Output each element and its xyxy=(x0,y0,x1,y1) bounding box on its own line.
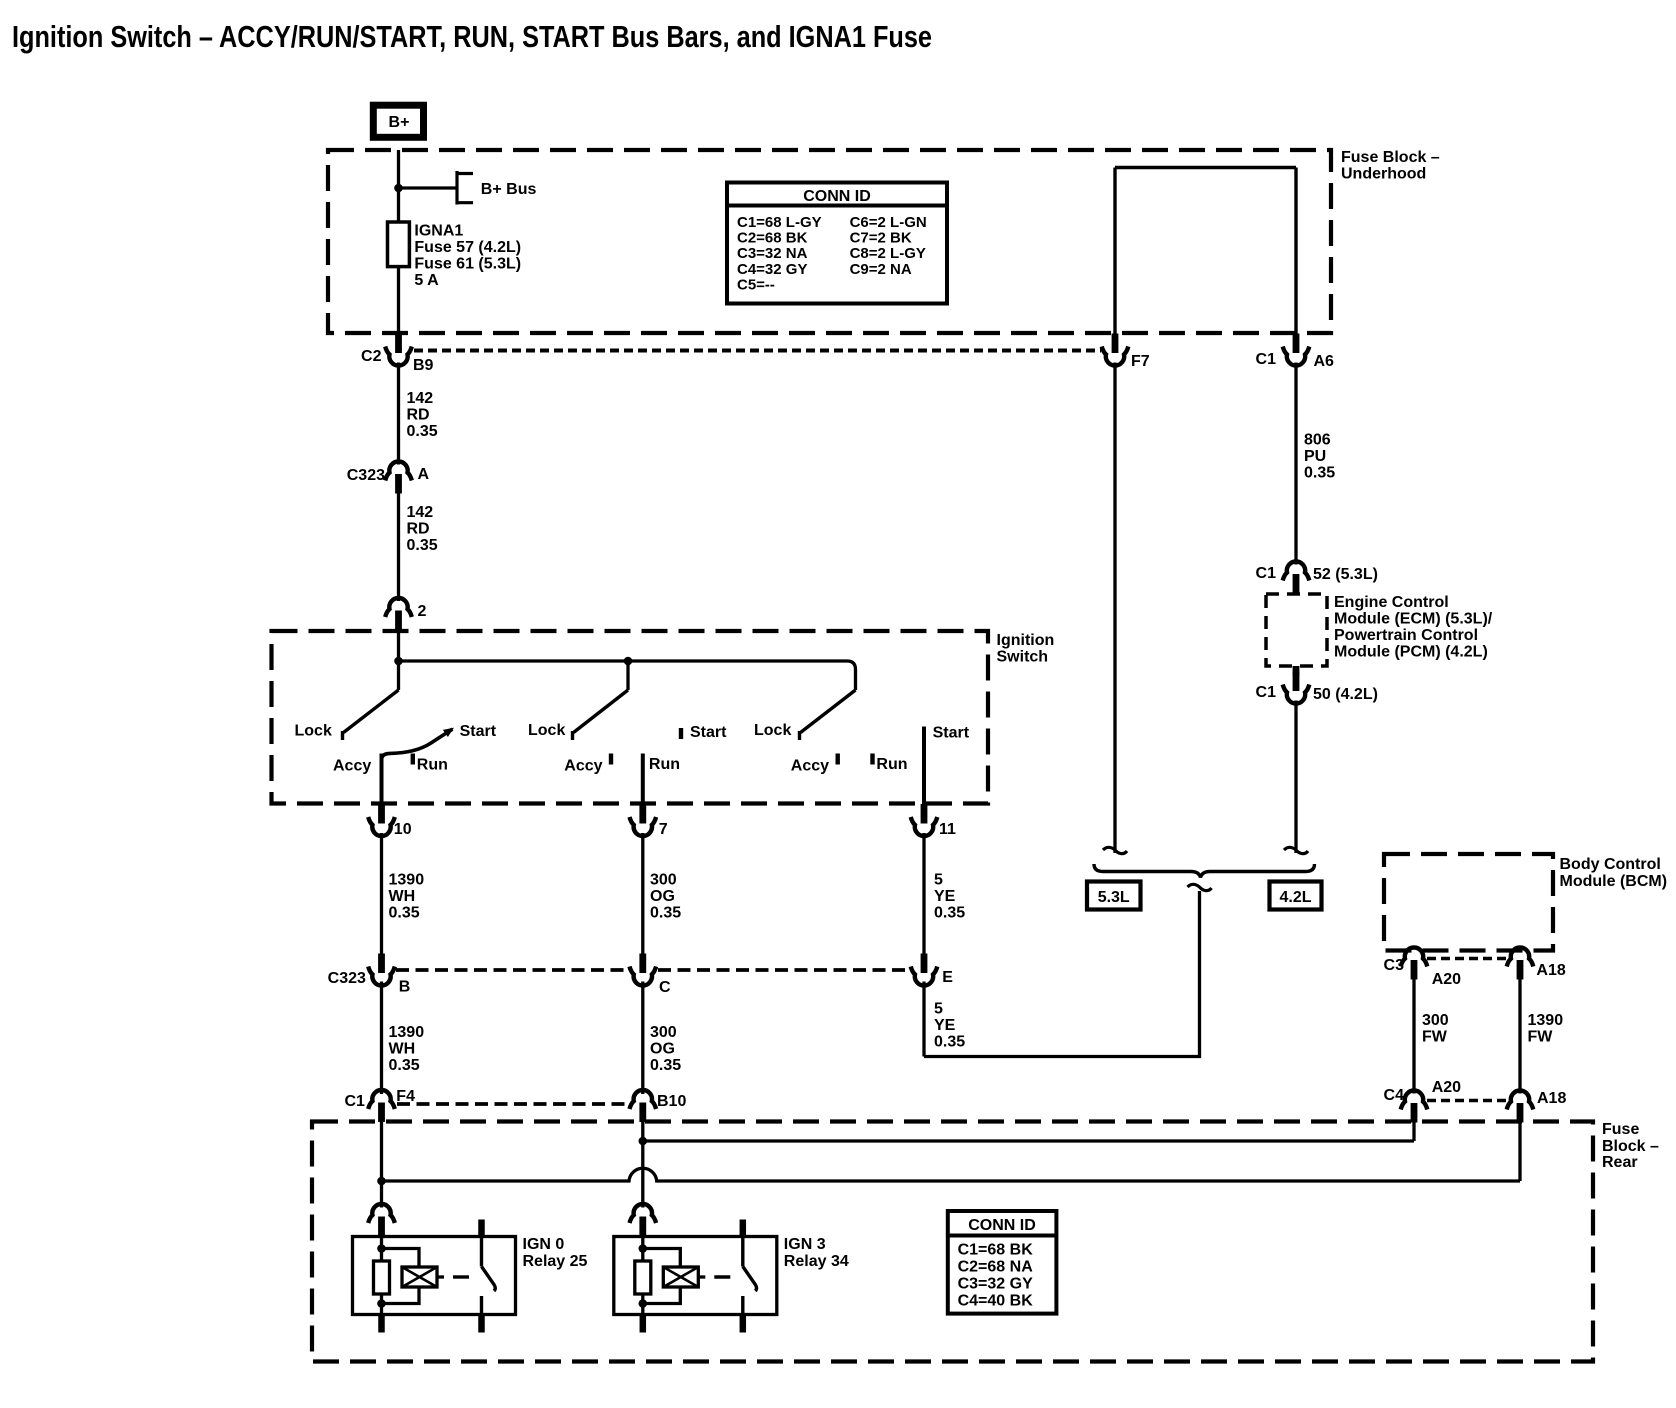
svg-text:CONN ID: CONN ID xyxy=(803,188,871,205)
svg-text:CONN ID: CONN ID xyxy=(968,1217,1036,1234)
svg-text:C1: C1 xyxy=(1256,351,1277,368)
svg-text:Fuse 61 (5.3L): Fuse 61 (5.3L) xyxy=(414,256,521,273)
svg-text:Switch: Switch xyxy=(997,649,1049,666)
svg-text:Lock: Lock xyxy=(754,722,791,739)
svg-text:FW: FW xyxy=(1422,1029,1448,1046)
svg-text:0.35: 0.35 xyxy=(407,537,438,554)
svg-text:Accy: Accy xyxy=(791,758,829,775)
svg-text:Underhood: Underhood xyxy=(1341,166,1426,183)
svg-text:7: 7 xyxy=(659,821,668,838)
svg-text:RD: RD xyxy=(407,521,430,538)
svg-text:Ignition Switch – ACCY/RUN/STA: Ignition Switch – ACCY/RUN/START, RUN, S… xyxy=(12,19,932,54)
svg-text:Accy: Accy xyxy=(564,758,602,775)
svg-text:Lock: Lock xyxy=(295,723,332,740)
svg-text:1390: 1390 xyxy=(389,872,425,889)
svg-text:0.35: 0.35 xyxy=(934,905,965,922)
svg-text:Relay 34: Relay 34 xyxy=(784,1253,849,1270)
svg-text:5: 5 xyxy=(934,872,943,889)
svg-text:10: 10 xyxy=(394,821,412,838)
svg-text:142: 142 xyxy=(407,390,434,407)
svg-text:Start: Start xyxy=(460,723,497,740)
svg-text:2: 2 xyxy=(418,603,427,620)
svg-text:C4=32 GY: C4=32 GY xyxy=(737,261,807,278)
svg-text:C9=2 NA: C9=2 NA xyxy=(850,261,912,278)
svg-text:0.35: 0.35 xyxy=(389,905,420,922)
svg-text:C4: C4 xyxy=(1384,1087,1405,1104)
svg-text:Body Control: Body Control xyxy=(1560,856,1661,873)
svg-text:C2=68 NA: C2=68 NA xyxy=(958,1259,1034,1276)
svg-text:0.35: 0.35 xyxy=(934,1034,965,1051)
svg-text:C8=2 L-GY: C8=2 L-GY xyxy=(850,245,926,262)
svg-text:C7=2 BK: C7=2 BK xyxy=(850,230,912,247)
svg-text:A20: A20 xyxy=(1432,971,1461,988)
svg-text:C323: C323 xyxy=(328,970,366,987)
svg-text:0.35: 0.35 xyxy=(1304,465,1335,482)
svg-text:Powertrain Control: Powertrain Control xyxy=(1334,627,1478,644)
svg-text:Start: Start xyxy=(690,724,727,741)
svg-text:C2=68 BK: C2=68 BK xyxy=(737,230,808,247)
svg-text:0.35: 0.35 xyxy=(389,1057,420,1074)
svg-text:Rear: Rear xyxy=(1602,1154,1638,1171)
svg-text:300: 300 xyxy=(1422,1012,1449,1029)
svg-text:IGNA1: IGNA1 xyxy=(414,223,463,240)
svg-text:C6=2 L-GN: C6=2 L-GN xyxy=(850,214,927,231)
svg-text:300: 300 xyxy=(650,872,677,889)
svg-text:A: A xyxy=(418,466,430,483)
svg-text:1390: 1390 xyxy=(1528,1012,1564,1029)
svg-text:Run: Run xyxy=(417,757,448,774)
svg-text:WH: WH xyxy=(389,1041,416,1058)
svg-text:F7: F7 xyxy=(1131,353,1150,370)
svg-text:IGN 3: IGN 3 xyxy=(784,1236,826,1253)
svg-text:0.35: 0.35 xyxy=(650,905,681,922)
svg-text:FW: FW xyxy=(1528,1029,1554,1046)
svg-text:PU: PU xyxy=(1304,448,1326,465)
svg-text:Run: Run xyxy=(876,756,907,773)
svg-text:RD: RD xyxy=(407,407,430,424)
svg-text:Fuse 57 (4.2L): Fuse 57 (4.2L) xyxy=(414,239,521,256)
svg-text:OG: OG xyxy=(650,888,675,905)
svg-text:0.35: 0.35 xyxy=(407,423,438,440)
svg-text:5: 5 xyxy=(934,1001,943,1018)
svg-text:4.2L: 4.2L xyxy=(1279,889,1311,906)
svg-text:C4=40 BK: C4=40 BK xyxy=(958,1293,1034,1310)
svg-text:Block –: Block – xyxy=(1602,1138,1659,1155)
svg-text:300: 300 xyxy=(650,1024,677,1041)
svg-text:50 (4.2L): 50 (4.2L) xyxy=(1313,686,1378,703)
svg-text:C2: C2 xyxy=(361,348,382,365)
svg-text:0.35: 0.35 xyxy=(650,1057,681,1074)
svg-text:5.3L: 5.3L xyxy=(1098,889,1130,906)
svg-text:B+ Bus: B+ Bus xyxy=(481,181,537,198)
svg-text:Fuse Block –: Fuse Block – xyxy=(1341,149,1440,166)
svg-text:C1: C1 xyxy=(1256,684,1277,701)
svg-text:C3=32 NA: C3=32 NA xyxy=(737,245,808,262)
svg-text:Module (PCM) (4.2L): Module (PCM) (4.2L) xyxy=(1334,644,1488,661)
svg-text:Relay 25: Relay 25 xyxy=(523,1253,588,1270)
svg-text:C1=68 BK: C1=68 BK xyxy=(958,1242,1034,1259)
svg-text:C3=32 GY: C3=32 GY xyxy=(958,1276,1033,1293)
svg-text:B10: B10 xyxy=(657,1093,686,1110)
svg-text:806: 806 xyxy=(1304,432,1331,449)
svg-text:Start: Start xyxy=(933,725,970,742)
svg-text:Accy: Accy xyxy=(333,758,371,775)
svg-text:A18: A18 xyxy=(1536,962,1565,979)
svg-text:C: C xyxy=(659,979,671,996)
svg-text:C1=68 L-GY: C1=68 L-GY xyxy=(737,214,822,231)
svg-text:52 (5.3L): 52 (5.3L) xyxy=(1313,566,1378,583)
svg-text:Run: Run xyxy=(649,756,680,773)
svg-text:Module (ECM) (5.3L)/: Module (ECM) (5.3L)/ xyxy=(1334,611,1493,628)
svg-text:142: 142 xyxy=(407,504,434,521)
svg-text:WH: WH xyxy=(389,888,416,905)
svg-text:OG: OG xyxy=(650,1041,675,1058)
svg-text:YE: YE xyxy=(934,1017,956,1034)
svg-text:A20: A20 xyxy=(1432,1079,1461,1096)
svg-text:C5=--: C5=-- xyxy=(737,276,775,293)
svg-text:B+: B+ xyxy=(389,114,410,131)
svg-text:B: B xyxy=(399,979,411,996)
svg-text:1390: 1390 xyxy=(389,1024,425,1041)
svg-text:A18: A18 xyxy=(1537,1090,1566,1107)
svg-text:A6: A6 xyxy=(1314,353,1335,370)
svg-text:E: E xyxy=(942,969,953,986)
svg-text:Fuse: Fuse xyxy=(1602,1121,1639,1138)
svg-text:C323: C323 xyxy=(347,467,385,484)
svg-text:Ignition: Ignition xyxy=(997,632,1055,649)
svg-text:C1: C1 xyxy=(1256,565,1277,582)
svg-text:YE: YE xyxy=(934,888,956,905)
svg-text:Lock: Lock xyxy=(528,722,565,739)
svg-text:C3: C3 xyxy=(1384,957,1405,974)
svg-text:IGN 0: IGN 0 xyxy=(523,1236,565,1253)
svg-text:C1: C1 xyxy=(344,1093,365,1110)
svg-text:5 A: 5 A xyxy=(414,272,439,289)
svg-text:11: 11 xyxy=(939,821,956,838)
svg-text:Engine Control: Engine Control xyxy=(1334,594,1449,611)
svg-text:B9: B9 xyxy=(413,357,434,374)
svg-text:Module (BCM): Module (BCM) xyxy=(1560,873,1668,890)
